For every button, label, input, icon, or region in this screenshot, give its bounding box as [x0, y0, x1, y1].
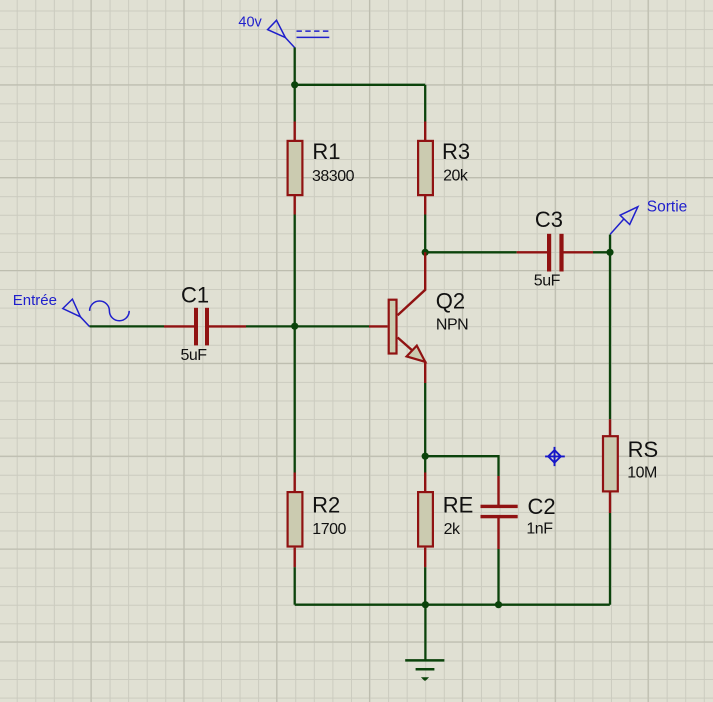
- wire C3 to output node: [593, 251, 610, 253]
- svg-text:2k: 2k: [444, 521, 461, 538]
- wire C1 to base node: [246, 325, 295, 327]
- label RS: [628, 437, 659, 462]
- wire output stub up: [609, 235, 611, 253]
- value 20k: [443, 168, 469, 185]
- capacitor C2: [481, 476, 518, 549]
- ground: [405, 660, 444, 680]
- label R3: [442, 139, 470, 164]
- label 40v: [238, 14, 262, 30]
- svg-text:Q2: Q2: [436, 289, 465, 314]
- svg-text:R2: R2: [312, 493, 340, 518]
- svg-text:20k: 20k: [443, 168, 469, 185]
- wire RE node down: [424, 456, 426, 472]
- value 38300: [312, 168, 355, 185]
- wire emitter to RE node: [424, 383, 426, 456]
- label R2: [312, 493, 340, 518]
- wire RS bottom to ground rail: [609, 513, 611, 605]
- input terminal Entree: [63, 299, 129, 327]
- output terminal Sortie: [610, 207, 638, 235]
- value 1700: [312, 521, 346, 538]
- wire ground rail horizontal: [295, 604, 610, 606]
- wire power vertical: [294, 48, 296, 85]
- wire top to R1: [294, 85, 296, 122]
- label Q2: [436, 289, 465, 314]
- wire ground stub: [424, 605, 426, 661]
- wire output node to RS: [609, 252, 611, 419]
- wire input to C1: [90, 325, 164, 327]
- svg-text:R1: R1: [312, 139, 340, 164]
- value 10M: [627, 465, 657, 482]
- wire R2 bottom to ground rail: [294, 567, 296, 605]
- svg-text:C2: C2: [528, 494, 556, 519]
- value 5uF (C3): [534, 273, 561, 290]
- resistor R2: [288, 473, 303, 568]
- svg-text:RS: RS: [628, 437, 659, 462]
- junction dot collector node: [422, 249, 429, 256]
- wire RE node to C2 corner: [425, 456, 498, 476]
- major grid lines vertical: [91, 0, 648, 702]
- label Sortie: [647, 199, 688, 216]
- svg-text:Sortie: Sortie: [647, 199, 688, 216]
- svg-text:38300: 38300: [312, 168, 355, 185]
- svg-text:10M: 10M: [627, 465, 657, 482]
- capacitor C3: [517, 234, 593, 272]
- value NPN: [436, 317, 468, 334]
- resistor RS: [603, 419, 618, 513]
- junction dot base node: [291, 323, 298, 330]
- value 1nF: [526, 521, 553, 538]
- svg-text:40v: 40v: [238, 14, 262, 30]
- major grid lines horizontal: [0, 85, 713, 642]
- svg-text:5uF: 5uF: [534, 273, 561, 290]
- svg-text:RE: RE: [443, 493, 474, 518]
- wire R3 bottom to collector node: [424, 215, 426, 253]
- wire collector node to C3: [425, 251, 517, 253]
- junction dot ground rail at RE: [422, 601, 429, 608]
- svg-text:C1: C1: [181, 282, 209, 307]
- svg-text:Entrée: Entrée: [13, 292, 57, 309]
- wire RE bottom to ground rail: [424, 567, 426, 605]
- junction dot output node: [606, 249, 613, 256]
- svg-text:5uF: 5uF: [181, 347, 208, 364]
- label C2: [528, 494, 556, 519]
- wire C2 bottom to ground rail: [497, 549, 499, 605]
- label R1: [312, 139, 340, 164]
- svg-text:R3: R3: [442, 139, 470, 164]
- svg-text:C3: C3: [535, 207, 563, 232]
- svg-text:1nF: 1nF: [526, 521, 553, 538]
- label RE: [443, 493, 474, 518]
- power terminal 40v symbol: [268, 20, 330, 48]
- wire top horizontal: [295, 84, 426, 86]
- wire R1 bottom to base node: [294, 215, 296, 327]
- resistor R3: [418, 122, 433, 215]
- label C1: [181, 282, 209, 307]
- svg-text:NPN: NPN: [436, 317, 468, 334]
- junction dot ground rail at C2: [495, 601, 502, 608]
- junction dot RE node: [422, 453, 429, 460]
- label Entree: [13, 292, 57, 309]
- wire base node to Q2: [295, 325, 369, 327]
- value 5uF (C1): [181, 347, 208, 364]
- capacitor C1: [164, 308, 246, 346]
- svg-text:1700: 1700: [312, 521, 346, 538]
- wire base node down to R2: [294, 326, 296, 472]
- resistor R1: [288, 122, 303, 215]
- wire top to R3: [424, 85, 426, 122]
- value 2k: [444, 521, 461, 538]
- origin marker crosshair: [545, 447, 565, 466]
- transistor Q2: [369, 252, 425, 383]
- label C3: [535, 207, 563, 232]
- resistor RE: [418, 473, 433, 568]
- junction dot power node: [291, 81, 298, 88]
